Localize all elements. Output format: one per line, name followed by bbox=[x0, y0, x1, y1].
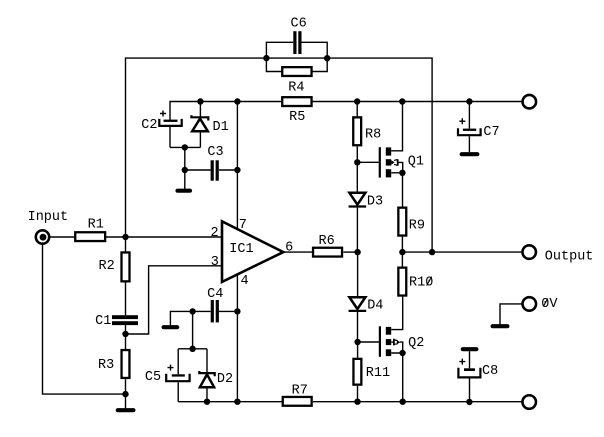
junction: feedback/C6/R4 right bbox=[324, 55, 330, 61]
junction: C4 left node bbox=[189, 308, 195, 314]
junction: feedback/C6/R4 left bbox=[263, 55, 269, 61]
resistor R2 bbox=[122, 237, 130, 315]
wire: top supply rail right segment bbox=[312, 101, 521, 103]
junction: R3 bottom node bbox=[122, 391, 128, 397]
capacitor C1 bbox=[112, 315, 138, 349]
capacitor C3 bbox=[185, 160, 238, 180]
svg-text:C7: C7 bbox=[483, 125, 499, 140]
op-amp IC1 bbox=[222, 221, 283, 282]
svg-text:Input: Input bbox=[28, 210, 69, 225]
wire: C3 node to ground bbox=[184, 170, 186, 189]
resistor R4 bbox=[266, 58, 327, 76]
svg-text:7: 7 bbox=[239, 218, 247, 233]
svg-text:R10: R10 bbox=[409, 276, 433, 291]
ground (below C7) bbox=[462, 152, 478, 156]
junction: C3 left node bbox=[182, 167, 188, 173]
node A junction bbox=[122, 234, 128, 240]
wire: C5/D2 top link bbox=[178, 348, 207, 350]
wire: output line bbox=[402, 251, 522, 253]
wire: input ground return bbox=[43, 244, 126, 395]
MOSFET Q1 bbox=[357, 102, 403, 207]
wire: C2/D1 bottom link bbox=[170, 146, 200, 148]
capacitor C5 bbox=[166, 349, 189, 402]
svg-text:C2: C2 bbox=[141, 118, 157, 133]
resistor R7 bbox=[283, 397, 312, 406]
terminal: Output bbox=[522, 245, 536, 259]
wire: IC1 pin 7 supply line bbox=[236, 102, 238, 230]
ground (0V) bbox=[493, 324, 508, 328]
junction: Q1 gate node bbox=[354, 159, 360, 165]
svg-text:R7: R7 bbox=[292, 383, 308, 398]
svg-text:C8: C8 bbox=[482, 364, 498, 379]
svg-text:R6: R6 bbox=[319, 234, 335, 249]
junction: C7 on rail bbox=[466, 98, 472, 104]
svg-text:R4: R4 bbox=[288, 80, 304, 95]
junction: feedback on output line bbox=[429, 249, 435, 255]
MOSFET Q2 bbox=[358, 297, 403, 402]
diode D4 bbox=[349, 252, 367, 342]
wire: C4 left node down to C5/D2 bbox=[192, 311, 194, 348]
resistor R6 bbox=[313, 248, 342, 257]
ground (above C8) bbox=[463, 347, 477, 351]
svg-text:C6: C6 bbox=[291, 17, 307, 32]
junction: Q1 drain on rail bbox=[399, 98, 405, 104]
wire: IC1 pin 3 bbox=[126, 266, 223, 334]
ground (below R3) bbox=[118, 408, 134, 412]
svg-text:4: 4 bbox=[241, 274, 249, 289]
svg-text:C5: C5 bbox=[145, 370, 161, 385]
junction: Q1 source/body bbox=[399, 170, 405, 176]
svg-text:D4: D4 bbox=[367, 299, 383, 314]
wire: top supply rail left segment bbox=[170, 102, 282, 120]
svg-text:2: 2 bbox=[211, 226, 219, 241]
svg-text:C4: C4 bbox=[207, 287, 223, 302]
svg-text:R1: R1 bbox=[88, 217, 104, 232]
zener diode D1 bbox=[191, 102, 208, 148]
resistor R9 bbox=[398, 208, 406, 236]
svg-text:R8: R8 bbox=[365, 127, 381, 142]
svg-text:Output: Output bbox=[545, 249, 594, 264]
terminal: V- bbox=[522, 395, 536, 409]
resistor R3 bbox=[122, 350, 130, 408]
wire: bottom rail right segment bbox=[313, 401, 522, 403]
junction: R9/R10 output node bbox=[399, 249, 405, 255]
wire: feedback net from node A up and across to output bbox=[126, 58, 433, 252]
wire: IC1 pin 4 line down to bottom rail bbox=[236, 274, 238, 401]
svg-text:3: 3 bbox=[211, 255, 219, 270]
junction: pin4 line on bottom rail bbox=[234, 399, 240, 405]
junction: Q2 source/body bbox=[399, 350, 405, 356]
diode D3 bbox=[349, 193, 367, 252]
svg-text:C1: C1 bbox=[95, 314, 111, 329]
svg-text:6: 6 bbox=[285, 240, 293, 255]
zener diode D2 bbox=[199, 349, 214, 402]
junction: R8 top on rail bbox=[354, 98, 360, 104]
junction: Q2 source on bottom rail bbox=[400, 399, 406, 405]
junction: C4 right node on pin4 line bbox=[234, 308, 240, 314]
junction: C8 on bottom rail bbox=[466, 399, 472, 405]
terminal: 0V bbox=[523, 297, 537, 311]
wire: R6 to bias node bbox=[343, 251, 357, 253]
svg-text:D2: D2 bbox=[217, 372, 233, 387]
ground (below C2/D1) bbox=[178, 189, 191, 193]
junction: C5/D2 top node bbox=[189, 346, 195, 352]
capacitor C8 bbox=[458, 351, 480, 402]
wire: bottom rail left segment bbox=[178, 401, 282, 403]
wire: R1 to IC1 pin 2 bbox=[106, 236, 222, 238]
wire: IC1 pin 6 to R6 bbox=[283, 251, 312, 253]
plus sign C7 bbox=[459, 118, 465, 124]
junction: D1 top on rail bbox=[197, 98, 203, 104]
svg-text:D3: D3 bbox=[367, 194, 383, 209]
junction: Q2 gate node bbox=[354, 339, 360, 345]
svg-text:R3: R3 bbox=[98, 358, 114, 373]
slash of zero in R10 bbox=[427, 277, 432, 286]
resistor R5 bbox=[282, 97, 311, 106]
svg-text:R5: R5 bbox=[289, 110, 305, 125]
wire: 0V branch bbox=[500, 304, 523, 325]
svg-text:IC1: IC1 bbox=[229, 242, 253, 257]
svg-text:Q1: Q1 bbox=[408, 154, 424, 169]
junction: pin7 line on rail bbox=[234, 98, 240, 104]
junction: D2 on bottom rail bbox=[204, 399, 210, 405]
terminal: V+ bbox=[523, 95, 537, 109]
capacitor C6 bbox=[266, 31, 327, 58]
junction: C2/D1 bottom bbox=[182, 144, 188, 150]
junction: D3/D4/R6 node bbox=[354, 249, 360, 255]
svg-text:C3: C3 bbox=[207, 145, 223, 160]
plus sign C8 bbox=[459, 359, 465, 365]
wire: down to C3 node bbox=[184, 147, 186, 170]
slash of zero in 0V bbox=[543, 299, 548, 307]
capacitor C4 bbox=[211, 300, 238, 322]
wire: R9 to R10 through output node bbox=[401, 237, 403, 267]
plus sign C5 bbox=[168, 365, 174, 371]
capacitor C7 bbox=[458, 102, 481, 153]
junction: C1 bottom node bbox=[122, 331, 128, 337]
junction: C3 right on pin7 line bbox=[234, 167, 240, 173]
svg-text:R9: R9 bbox=[409, 218, 425, 233]
input connector bbox=[36, 230, 49, 243]
ground (C4 branch) bbox=[164, 325, 178, 329]
plus sign C2 bbox=[160, 111, 166, 117]
svg-text:Q2: Q2 bbox=[408, 336, 424, 351]
resistor R11 bbox=[353, 342, 361, 402]
svg-text:R2: R2 bbox=[99, 259, 115, 274]
capacitor C2 bbox=[159, 119, 181, 147]
svg-text:D1: D1 bbox=[213, 120, 229, 135]
wire: input to R1 bbox=[50, 236, 76, 238]
junction: R11 on bottom rail bbox=[354, 399, 360, 405]
svg-text:R11: R11 bbox=[366, 366, 390, 381]
wire: C4 ground branch bbox=[170, 311, 210, 325]
resistor R1 bbox=[75, 232, 105, 241]
resistor R10 bbox=[398, 268, 406, 296]
resistor R8 bbox=[353, 102, 361, 193]
